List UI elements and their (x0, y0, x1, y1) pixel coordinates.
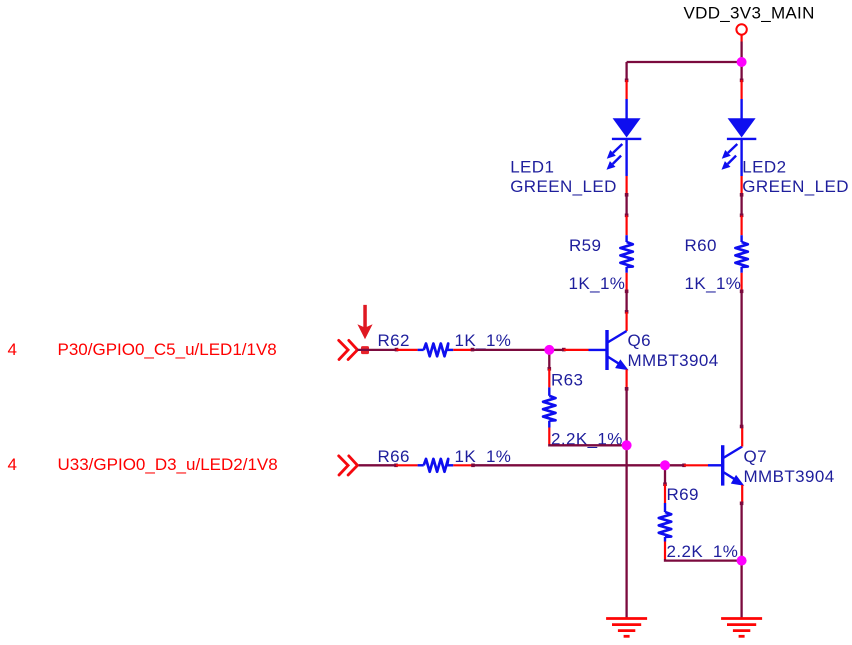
resistor R66 (396, 459, 473, 472)
port U33/GPIO0_D3_u/LED2/1V8 (339, 456, 358, 475)
wire LED1 anode (625, 62, 627, 80)
junction R62/R63/Q6 base (544, 345, 554, 355)
svg-text:1K_1%: 1K_1% (685, 274, 742, 293)
ground GND2 (721, 619, 762, 637)
cursor arrow (357, 305, 372, 339)
svg-text:LED1: LED1 (510, 158, 554, 177)
svg-text:R60: R60 (685, 236, 717, 255)
svg-text:LED2: LED2 (742, 158, 786, 177)
svg-text:Q7: Q7 (744, 447, 767, 466)
wire LED2 anode (740, 62, 742, 80)
resistor R63 (543, 369, 555, 444)
wire R66 to Q7 base (473, 464, 684, 466)
svg-text:P30/GPIO0_C5_u/LED1/1V8: P30/GPIO0_C5_u/LED1/1V8 (58, 340, 277, 359)
wire LED2 cathode to R60 (740, 195, 742, 216)
power symbol VDD_3V3_MAIN (736, 24, 746, 34)
wire port1 to R62 (358, 349, 397, 351)
wire port2 to R66 (359, 464, 396, 466)
wire junction down to R69 (664, 465, 666, 484)
transistor Q7 MMBT3904 (708, 427, 743, 504)
svg-text:GREEN_LED: GREEN_LED (742, 177, 849, 196)
Q6 base pin stub (564, 349, 589, 351)
wire power stem (740, 42, 742, 63)
svg-text:R69: R69 (667, 485, 699, 504)
svg-text:4: 4 (8, 455, 17, 474)
svg-text:R62: R62 (378, 331, 410, 350)
resistor R62 (397, 344, 473, 357)
svg-text:R59: R59 (569, 236, 601, 255)
wire R63 bottom to emitter junction (549, 444, 626, 445)
transistor Q6 MMBT3904 (589, 312, 628, 389)
wire Q6 emitter down (625, 389, 627, 619)
wire junction to Q6 base (549, 349, 564, 351)
wire R69 bottom to Q7 emitter junction (665, 559, 742, 561)
svg-text:U33/GPIO0_D3_u/LED2/1V8: U33/GPIO0_D3_u/LED2/1V8 (58, 455, 278, 474)
junction Q7 emitter / R69 (737, 556, 747, 566)
LED1 diode D LED1 GREEN_LED (607, 80, 642, 195)
resistor R69 (659, 484, 671, 559)
svg-text:VDD_3V3_MAIN: VDD_3V3_MAIN (684, 4, 815, 23)
junction Q6 emitter / R63 (622, 440, 632, 450)
svg-text:GREEN_LED: GREEN_LED (510, 177, 617, 196)
wire R62 to junction (473, 349, 550, 351)
Q7 base pin stub (684, 464, 708, 466)
resistor R60 (735, 216, 747, 292)
wire top rail (627, 61, 742, 63)
wire LED1 cathode to R59 (625, 195, 627, 216)
svg-text:1K_1%: 1K_1% (569, 274, 626, 293)
port P30/GPIO0_C5_u/LED1/1V8 (339, 340, 358, 359)
wire R60 to Q7 collector (740, 291, 742, 427)
svg-text:MMBT3904: MMBT3904 (628, 351, 719, 370)
wire R59 to Q6 collector (625, 291, 627, 312)
junction R66/R69 (660, 460, 670, 470)
svg-text:R63: R63 (551, 371, 583, 390)
svg-text:1K_1%: 1K_1% (455, 447, 512, 466)
svg-text:MMBT3904: MMBT3904 (744, 467, 835, 486)
svg-text:R66: R66 (378, 447, 410, 466)
wire junction down to R63 (548, 350, 550, 369)
selection square on port (361, 346, 369, 354)
svg-text:Q6: Q6 (628, 331, 651, 350)
svg-text:2.2K_1%: 2.2K_1% (667, 542, 739, 561)
LED2 diode LED2 GREEN_LED (722, 80, 757, 195)
svg-text:1K_1%: 1K_1% (455, 331, 512, 350)
resistor R59 (620, 216, 632, 292)
junction top rail (737, 57, 747, 67)
svg-text:4: 4 (8, 340, 17, 359)
wire Q7 emitter down (740, 503, 742, 618)
ground GND1 (606, 619, 647, 637)
